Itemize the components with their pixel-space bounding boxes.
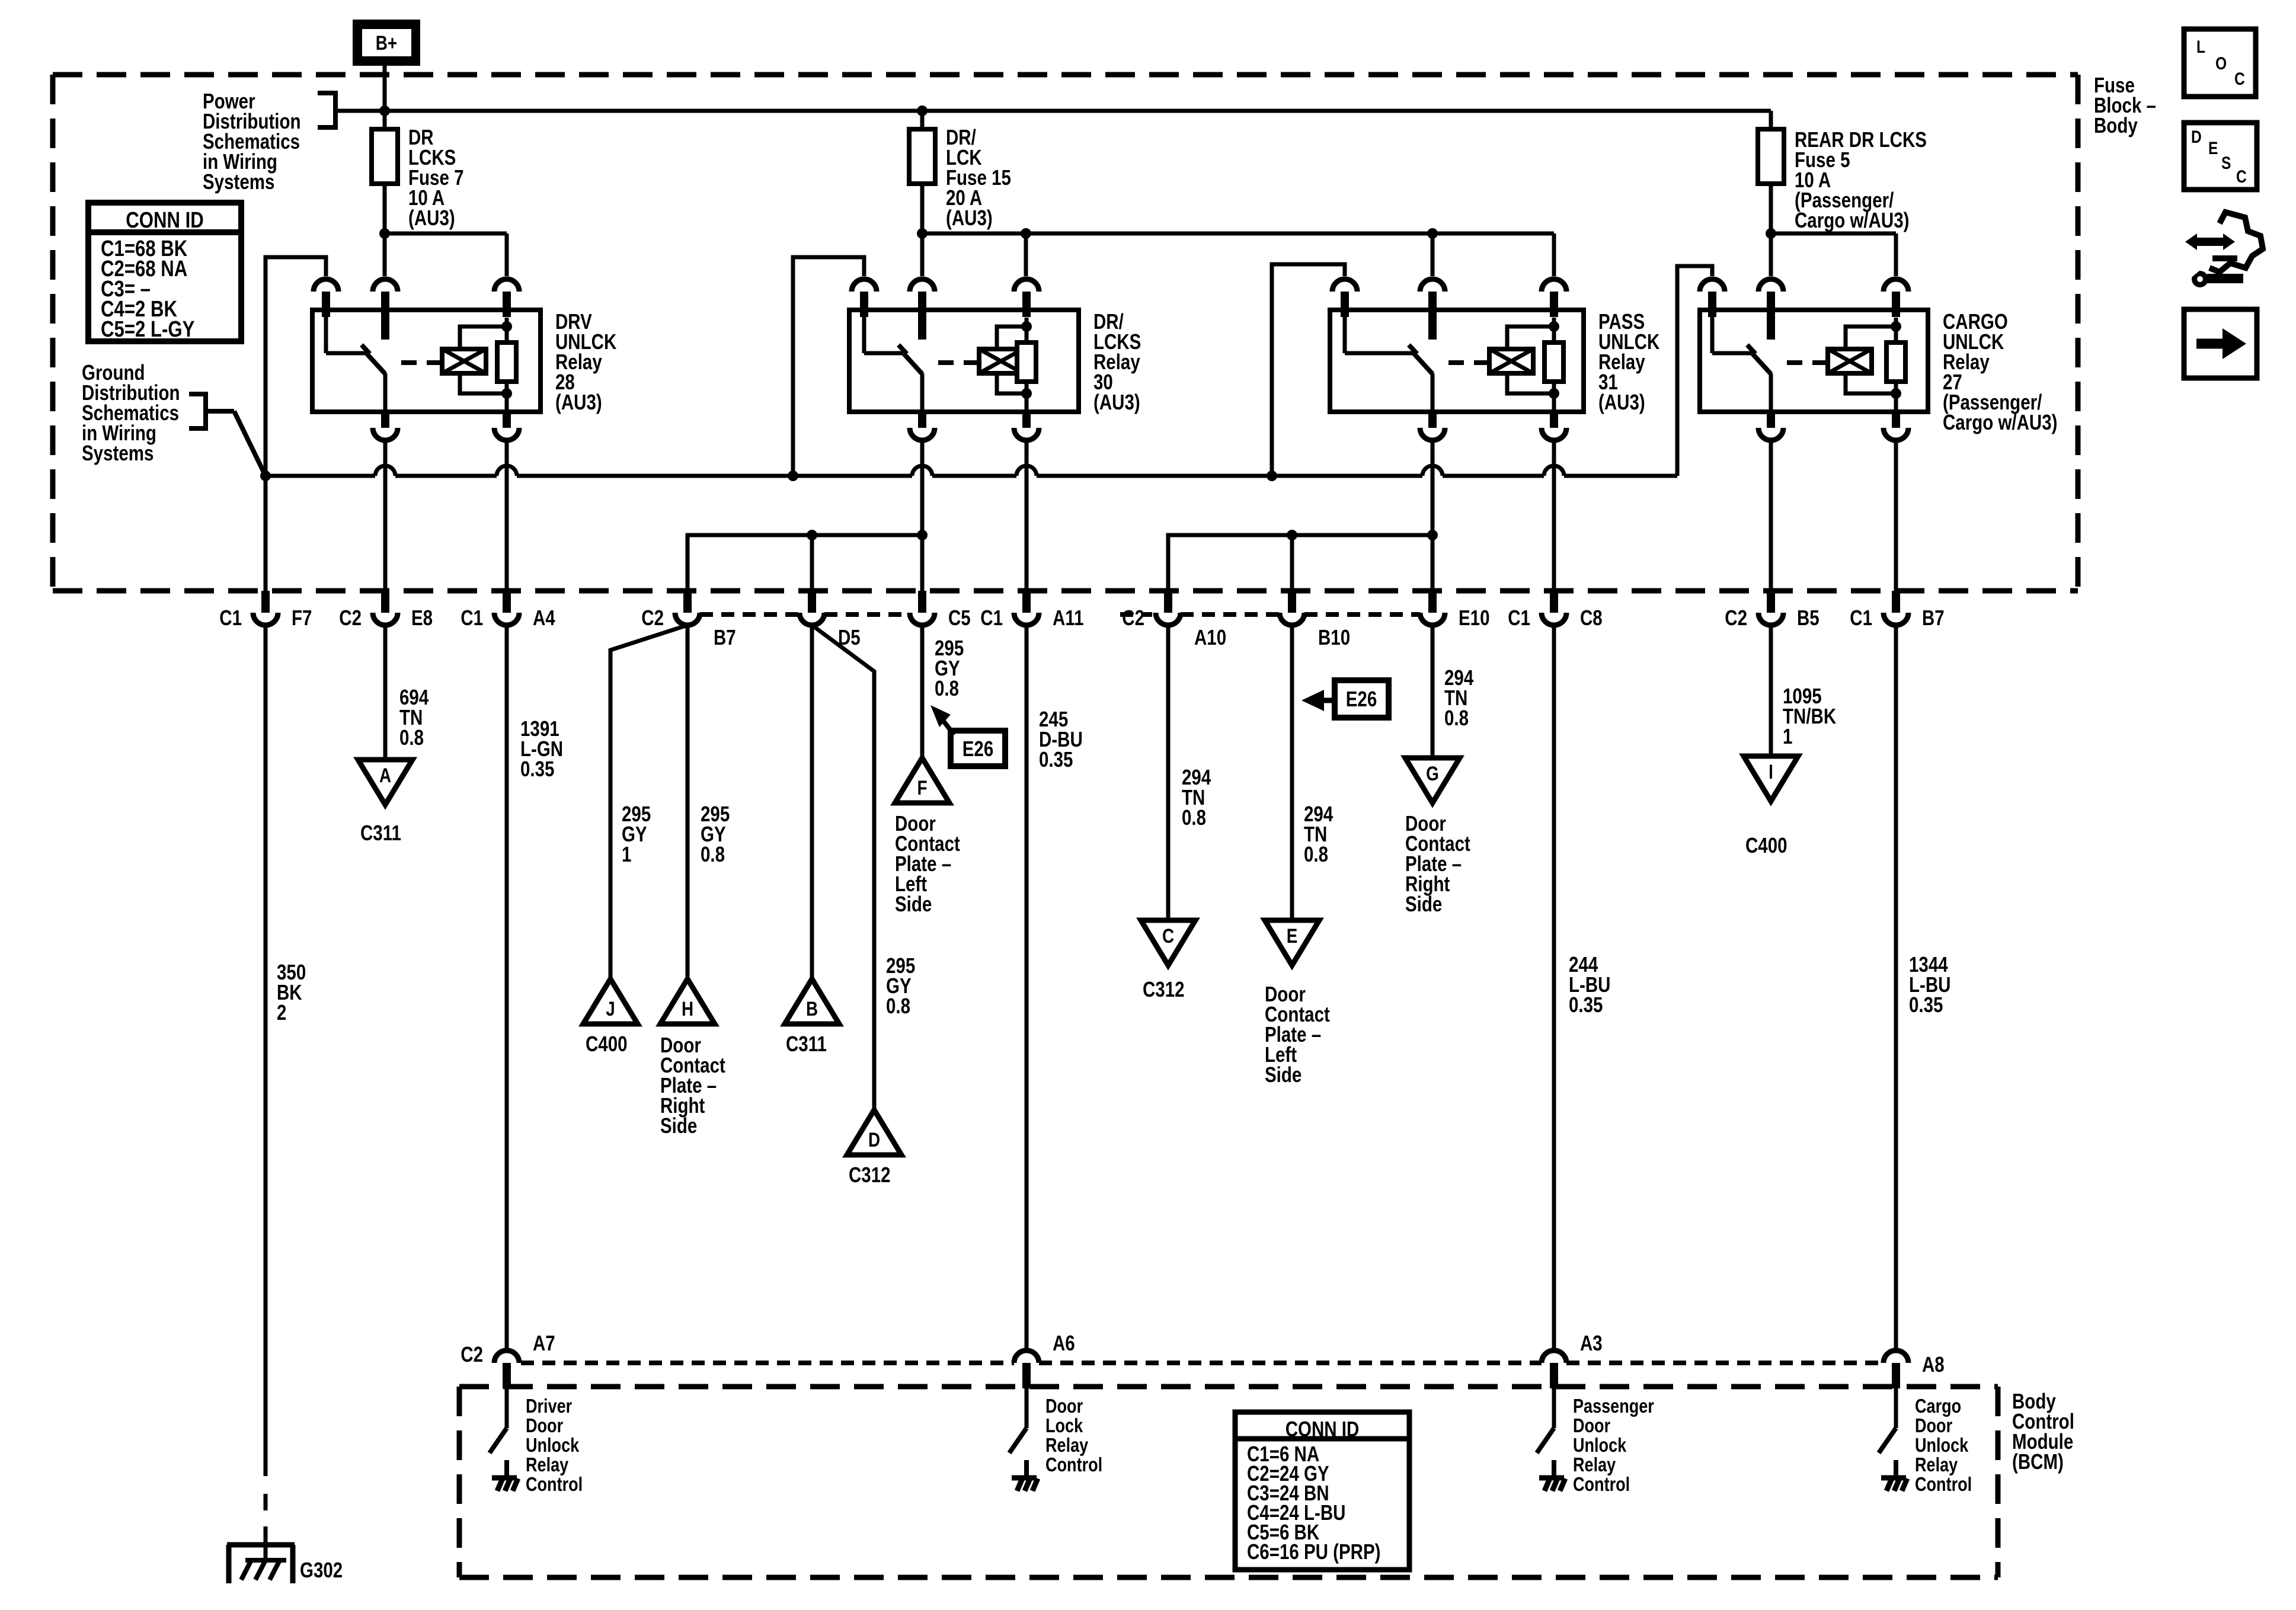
node — [917, 105, 928, 116]
svg-text:CONN ID: CONN ID — [1285, 1417, 1360, 1441]
svg-text:Door: Door — [1045, 1396, 1083, 1417]
relay coil — [442, 349, 486, 373]
wire pointer — [234, 411, 266, 476]
svg-text:Unlock: Unlock — [1573, 1435, 1626, 1457]
node — [1427, 228, 1438, 239]
svg-text:B: B — [806, 997, 818, 1020]
relay bottom pin — [1550, 412, 1558, 428]
wire 1391 L-GN 0.35 — [505, 625, 509, 1350]
wire — [383, 66, 387, 111]
connector pin A8 — [1884, 1350, 1908, 1363]
actuating dashed link — [938, 360, 979, 365]
switch output wire — [383, 373, 388, 412]
wire — [1431, 440, 1435, 591]
svg-text:A7: A7 — [533, 1331, 555, 1355]
svg-text:A8: A8 — [1922, 1352, 1945, 1376]
wire — [1771, 232, 1896, 236]
switch blade — [904, 354, 922, 374]
connector pin A10 — [1164, 591, 1172, 613]
passenger door unlock relay control switch — [1552, 1388, 1556, 1428]
switch blade — [1414, 354, 1432, 374]
svg-text:0.35: 0.35 — [1909, 993, 1943, 1016]
svg-text:C1: C1 — [1850, 606, 1872, 629]
svg-text:S: S — [2221, 153, 2231, 173]
svg-text:D: D — [868, 1128, 880, 1151]
svg-text:Relay: Relay — [526, 1455, 568, 1476]
svg-text:Side: Side — [1405, 892, 1442, 916]
fuse F7 DR LCKS Fuse 7 10A — [383, 111, 387, 129]
DESC icon — [2184, 123, 2257, 190]
svg-text:C2: C2 — [461, 1342, 483, 1366]
cargo door unlock relay control switch — [1894, 1388, 1898, 1428]
svg-text:E10: E10 — [1459, 606, 1490, 629]
wire B+ rail — [335, 109, 1771, 113]
BCM CONN ID table — [1235, 1412, 1409, 1570]
svg-text:Body: Body — [2094, 113, 2138, 137]
svg-text:Side: Side — [1265, 1062, 1302, 1086]
fixed contact from middle pin — [1428, 317, 1437, 340]
relay top pin — [373, 279, 398, 292]
svg-text:(BCM): (BCM) — [2012, 1449, 2064, 1473]
resistor — [505, 318, 509, 343]
svg-text:(AU3): (AU3) — [408, 206, 455, 229]
svg-text:J: J — [606, 997, 615, 1020]
node — [788, 470, 798, 481]
svg-text:Control: Control — [1915, 1474, 1972, 1496]
svg-text:(AU3): (AU3) — [1598, 390, 1645, 414]
battery B+ terminal — [353, 20, 420, 66]
wire 294 TN 0.8 to E — [1290, 625, 1294, 920]
splice F door contact plate left — [895, 758, 949, 803]
svg-text:C311: C311 — [786, 1032, 827, 1055]
svg-text:H: H — [682, 997, 693, 1020]
svg-text:A4: A4 — [533, 606, 555, 629]
node — [379, 105, 390, 116]
door lock relay control switch — [1025, 1388, 1029, 1428]
resistor — [1552, 318, 1556, 343]
relay box — [849, 310, 1079, 412]
node — [1549, 321, 1559, 332]
svg-text:A11: A11 — [1053, 606, 1084, 629]
svg-text:Cargo: Cargo — [1915, 1396, 1961, 1417]
svg-text:Door: Door — [1573, 1416, 1610, 1437]
wire — [1769, 440, 1773, 591]
svg-text:Passenger: Passenger — [1573, 1396, 1654, 1417]
splice D to C312 — [847, 1110, 901, 1155]
svg-text:CONN ID: CONN ID — [126, 208, 204, 233]
connector pin C5 — [918, 591, 926, 613]
switch output wire — [1769, 373, 1773, 412]
svg-text:B10: B10 — [1318, 625, 1350, 649]
relay top pin — [1014, 279, 1039, 292]
wire 294 TN 0.8 to G — [1431, 625, 1435, 758]
relay top pin — [1332, 279, 1357, 292]
relay top pin — [1758, 279, 1783, 292]
svg-text:D: D — [2191, 127, 2202, 147]
splice I to C400 — [1744, 756, 1798, 801]
splice H door contact plate right — [660, 979, 715, 1024]
svg-text:0.35: 0.35 — [1569, 993, 1603, 1016]
connector pin F7 — [261, 591, 270, 613]
actuating dashed link — [401, 360, 442, 365]
node — [917, 228, 928, 239]
relay box — [312, 310, 541, 412]
wire 295 GY 1 — [610, 625, 687, 979]
svg-text:B5: B5 — [1797, 606, 1819, 629]
splice J to C400 — [583, 979, 638, 1024]
relay bottom pin — [1767, 412, 1775, 428]
actuating dashed link — [1787, 360, 1828, 365]
svg-text:C1: C1 — [461, 606, 483, 629]
wire — [922, 232, 1554, 236]
svg-text:A10: A10 — [1194, 625, 1226, 649]
ground — [1894, 1460, 1898, 1478]
svg-text:Cargo w/AU3): Cargo w/AU3) — [1943, 410, 2057, 434]
fixed contact from middle pin — [918, 317, 926, 340]
switch common wire — [1710, 310, 1715, 353]
wire 244 L-BU 0.35 — [1552, 625, 1556, 1350]
relay bottom pin — [381, 412, 389, 428]
wire 350 BK 2 — [264, 625, 268, 1476]
relay coil — [1489, 349, 1533, 373]
wire 295 GY 0.8 to F — [920, 625, 925, 758]
switch output wire — [920, 373, 925, 412]
wire 1344 L-BU 0.35 — [1894, 625, 1898, 1350]
svg-text:E8: E8 — [411, 606, 433, 629]
svg-text:C1: C1 — [219, 606, 242, 629]
svg-text:1: 1 — [622, 842, 631, 866]
wire unlock bus right — [1168, 535, 1432, 591]
svg-text:C312: C312 — [849, 1163, 891, 1186]
node — [260, 470, 271, 481]
harness routing icon — [2185, 233, 2197, 250]
node — [807, 530, 817, 540]
svg-text:Cargo w/AU3): Cargo w/AU3) — [1795, 208, 1909, 232]
relay top pin — [1700, 279, 1725, 292]
bracket — [318, 93, 335, 127]
svg-text:Door: Door — [1915, 1416, 1952, 1437]
node — [1427, 530, 1438, 540]
wire — [1025, 440, 1029, 591]
node — [1891, 321, 1901, 332]
relay top pin — [1420, 279, 1445, 292]
wire — [1552, 440, 1556, 591]
coil parallel wires — [460, 327, 507, 349]
relay top pin — [910, 279, 935, 292]
svg-text:G302: G302 — [300, 1558, 343, 1582]
switch common wire — [324, 310, 328, 353]
svg-text:C311: C311 — [360, 821, 401, 844]
fixed contact from middle pin — [381, 317, 389, 340]
svg-text:C400: C400 — [1745, 833, 1787, 857]
bracket — [189, 394, 206, 428]
relay bottom pin — [503, 412, 511, 428]
coil parallel wires — [997, 327, 1027, 349]
relay bottom pin — [1022, 412, 1031, 428]
relay box — [1700, 310, 1928, 412]
wire to relay 27 switch feed — [1677, 266, 1712, 476]
node — [1021, 321, 1032, 332]
fuse block - body dashed border — [53, 72, 2078, 78]
svg-text:Side: Side — [895, 892, 932, 916]
svg-text:E26: E26 — [962, 737, 994, 760]
ground — [504, 1460, 509, 1478]
wire — [920, 440, 925, 591]
svg-text:Control: Control — [1573, 1474, 1630, 1496]
switch output wire — [1431, 373, 1435, 412]
svg-text:Control: Control — [1045, 1455, 1102, 1476]
svg-text:(AU3): (AU3) — [946, 206, 993, 229]
splice E door contact plate left — [1265, 920, 1319, 965]
switch blade — [1753, 354, 1771, 374]
relay coil — [1828, 349, 1872, 373]
svg-text:C400: C400 — [586, 1032, 628, 1055]
ground — [1024, 1460, 1029, 1478]
svg-text:Relay: Relay — [1573, 1455, 1616, 1476]
svg-text:O: O — [2215, 53, 2227, 73]
svg-text:0.8: 0.8 — [399, 725, 424, 749]
splice C to C312 — [1141, 920, 1195, 965]
wire 294 TN 0.8 to C — [1166, 625, 1171, 920]
coil parallel wires — [1507, 327, 1554, 349]
node — [501, 321, 512, 332]
svg-text:A: A — [379, 764, 391, 786]
svg-text:C2: C2 — [339, 606, 362, 629]
wire 295 GY 0.8 to splice D — [812, 625, 874, 1110]
svg-text:L: L — [2196, 37, 2205, 57]
wire 245 D-BU 0.35 — [1025, 625, 1029, 1350]
svg-text:C: C — [1162, 924, 1174, 947]
connector pin B5 — [1767, 591, 1775, 613]
coil parallel wires — [1846, 327, 1896, 349]
svg-text:C1: C1 — [1508, 606, 1530, 629]
relay bottom pin — [1428, 412, 1437, 428]
svg-text:E: E — [2208, 138, 2218, 158]
relay top pin — [1542, 279, 1566, 292]
fuse block CONN ID table — [88, 203, 241, 341]
ground G302 — [227, 1542, 295, 1548]
svg-text:G: G — [1426, 762, 1439, 785]
wire ground rail — [266, 474, 375, 478]
relay top pin — [494, 279, 519, 292]
relay box — [1330, 310, 1584, 412]
fixed contact from middle pin — [1767, 317, 1775, 340]
svg-text:C: C — [2236, 167, 2247, 187]
fuse F15 DR/LCK Fuse 15 20A — [920, 111, 925, 129]
LOC icon — [2184, 29, 2256, 97]
svg-text:Door: Door — [526, 1416, 563, 1437]
svg-text:Lock: Lock — [1045, 1416, 1083, 1437]
body control module dashed box — [459, 1384, 1998, 1390]
splice A to C311 — [358, 760, 412, 805]
switch contact tick — [898, 345, 907, 354]
connector pin A3 — [1542, 1350, 1566, 1363]
connector pin A4 — [503, 591, 511, 613]
switch blade — [367, 354, 385, 374]
connector pin B10 — [1288, 591, 1296, 613]
svg-text:B7: B7 — [714, 625, 736, 649]
switch contact tick — [1409, 345, 1417, 354]
node — [917, 530, 928, 540]
connector pin E10 — [1428, 591, 1437, 613]
svg-text:0.8: 0.8 — [886, 994, 910, 1017]
svg-text:Systems: Systems — [82, 441, 154, 465]
wire to splice B — [810, 625, 814, 979]
ground — [1552, 1460, 1556, 1478]
relay bottom pin — [918, 412, 926, 428]
inline connector dashed row — [700, 612, 800, 617]
svg-text:Side: Side — [660, 1113, 697, 1137]
svg-text:0.8: 0.8 — [1444, 706, 1469, 729]
svg-text:0.35: 0.35 — [1039, 747, 1073, 771]
svg-text:C1: C1 — [980, 606, 1003, 629]
wire to relay 31 switch feed — [1272, 264, 1345, 476]
svg-text:0.8: 0.8 — [1182, 805, 1206, 829]
svg-text:A3: A3 — [1580, 1331, 1603, 1355]
detail pointer E26 — [1302, 690, 1324, 711]
wire — [383, 440, 388, 591]
svg-text:0.8: 0.8 — [701, 842, 725, 866]
relay bottom pin — [1892, 412, 1900, 428]
actuating dashed link — [1448, 360, 1489, 365]
svg-text:C2: C2 — [1725, 606, 1747, 629]
svg-text:(AU3): (AU3) — [555, 390, 602, 414]
svg-text:Unlock: Unlock — [1915, 1435, 1968, 1457]
svg-text:C2: C2 — [641, 606, 664, 629]
resistor — [1894, 318, 1898, 343]
svg-text:C312: C312 — [1143, 977, 1185, 1001]
relay top pin — [852, 279, 877, 292]
node — [379, 228, 390, 239]
svg-text:I: I — [1769, 760, 1773, 783]
svg-text:C8: C8 — [1580, 606, 1603, 629]
svg-text:0.8: 0.8 — [1304, 842, 1328, 866]
wire — [505, 440, 509, 591]
node — [1267, 470, 1277, 481]
connector pin A7 — [494, 1350, 519, 1363]
wire 1095 TN/BK 1 — [1769, 625, 1773, 756]
node — [1287, 530, 1297, 540]
connector pin A6 — [1014, 1350, 1039, 1363]
relay coil — [979, 349, 1023, 373]
switch contact tick — [1747, 345, 1755, 354]
svg-text:E26: E26 — [1346, 687, 1377, 710]
connector pin E8 — [381, 591, 389, 613]
svg-text:C2: C2 — [1122, 606, 1144, 629]
wire — [1894, 440, 1898, 591]
wire 694 TN 0.8 — [383, 625, 388, 760]
svg-text:Unlock: Unlock — [526, 1435, 579, 1457]
wire to relay 28 coil feed — [266, 257, 326, 591]
splice B to C311 — [785, 979, 839, 1024]
connector pin B7 — [683, 591, 692, 613]
resistor — [1025, 318, 1029, 343]
node — [1766, 228, 1776, 239]
svg-text:C5=2 L-GY: C5=2 L-GY — [101, 317, 194, 342]
svg-text:B+: B+ — [376, 31, 397, 54]
svg-text:0.35: 0.35 — [520, 757, 554, 780]
svg-text:0.8: 0.8 — [935, 676, 959, 700]
svg-text:B7: B7 — [1922, 606, 1945, 629]
svg-text:Driver: Driver — [526, 1396, 572, 1417]
connector pin B7 — [1892, 591, 1900, 613]
relay top pin — [1884, 279, 1908, 292]
svg-text:A6: A6 — [1053, 1331, 1075, 1355]
svg-text:C: C — [2234, 69, 2245, 89]
fuse F5 REAR DR LCKS Fuse 5 10A — [1769, 111, 1773, 129]
svg-text:(AU3): (AU3) — [1093, 390, 1140, 414]
svg-text:Relay: Relay — [1045, 1435, 1088, 1457]
switch contact tick — [362, 345, 370, 354]
switch common wire — [862, 310, 866, 353]
svg-text:Control: Control — [526, 1474, 583, 1496]
switch common wire — [1343, 310, 1347, 353]
wire to relay 30 switch feed — [793, 257, 864, 476]
svg-text:F7: F7 — [292, 606, 312, 629]
node — [1021, 228, 1031, 239]
relay top pin — [314, 279, 338, 292]
BCM connector dashed row — [521, 1361, 1014, 1365]
svg-text:C6=16 PU (PRP): C6=16 PU (PRP) — [1247, 1539, 1380, 1563]
svg-text:C5: C5 — [948, 606, 971, 629]
wire unlock bus left — [687, 535, 922, 591]
wire — [385, 232, 507, 236]
driver door unlock relay control switch — [505, 1388, 509, 1428]
svg-text:E: E — [1287, 924, 1298, 947]
wire 295 GY 0.8 door contact right — [686, 625, 690, 979]
svg-text:2: 2 — [277, 1000, 286, 1024]
svg-text:Systems: Systems — [203, 169, 274, 193]
connector pin C8 — [1550, 591, 1558, 613]
connector pin A11 — [1022, 591, 1031, 613]
splice G door contact plate right — [1405, 758, 1460, 803]
go-to arrow icon — [2184, 309, 2257, 378]
connector pin D5 — [808, 591, 816, 613]
svg-text:F: F — [917, 776, 927, 799]
detail pointer E26 — [941, 718, 954, 735]
svg-text:1: 1 — [1783, 724, 1792, 748]
svg-text:Relay: Relay — [1915, 1455, 1958, 1476]
